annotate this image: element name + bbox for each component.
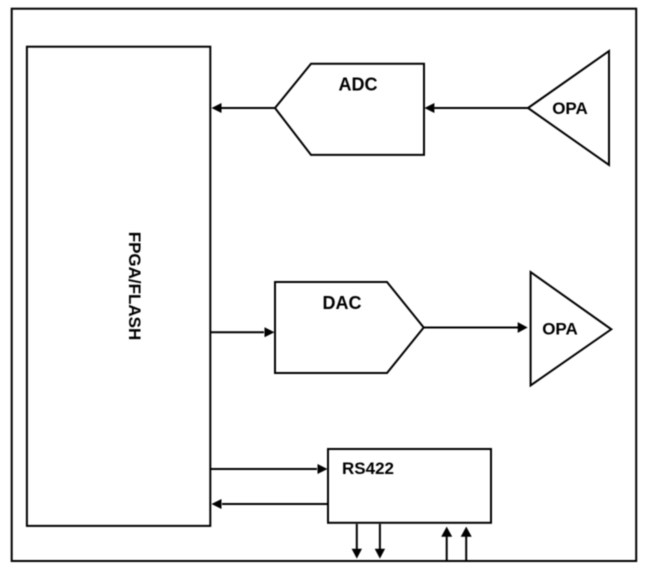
svg-text:ADC: ADC [339,75,378,95]
svg-text:OPA: OPA [552,99,588,118]
svg-text:OPA: OPA [542,320,578,339]
svg-text:RS422: RS422 [342,459,394,478]
svg-text:FPGA/FLASH: FPGA/FLASH [125,232,144,341]
svg-text:DAC: DAC [323,293,362,313]
